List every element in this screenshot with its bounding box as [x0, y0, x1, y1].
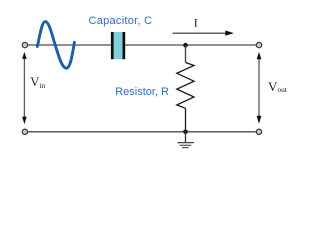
current arrow I head: [225, 30, 234, 35]
wire top-left segment: [27, 44, 111, 46]
ground stem: [185, 132, 187, 142]
resistor R zigzag body: [177, 63, 194, 109]
ground bar 1: [177, 142, 194, 144]
capacitor C right plate: [123, 32, 126, 59]
svg-text:Vin: Vin: [30, 75, 45, 90]
ground bar 2: [180, 144, 192, 146]
node terminal bottom-left: [22, 129, 27, 134]
svg-text:I: I: [194, 16, 198, 30]
Vin arrowhead up: [22, 52, 27, 59]
node terminal top-right: [256, 42, 261, 47]
capacitor C left plate: [111, 32, 114, 59]
resistor R top lead wire: [185, 45, 187, 62]
node junction dot top: [183, 43, 188, 48]
Vout arrowhead up: [257, 52, 262, 59]
node terminal bottom-right: [256, 129, 261, 134]
node terminal top-left: [22, 42, 27, 47]
Vin arrowhead down: [22, 117, 27, 125]
svg-text:Resistor, R: Resistor, R: [115, 86, 169, 98]
wire bottom segment: [27, 131, 256, 133]
ground bar 3: [182, 147, 189, 149]
wire top-right segment: [125, 44, 256, 46]
resistor R bottom lead wire: [185, 108, 187, 132]
svg-text:Vout: Vout: [268, 79, 288, 94]
Vout measure arrow shaft: [258, 57, 260, 119]
AC source sine wave: [37, 22, 74, 69]
current arrow I shaft: [173, 32, 228, 34]
Vout arrowhead down: [257, 116, 262, 124]
Vin measure arrow shaft: [23, 56, 25, 120]
svg-text:Capacitor, C: Capacitor, C: [89, 15, 153, 27]
node junction dot bottom: [183, 130, 188, 135]
capacitor C dielectric fill: [114, 32, 123, 59]
